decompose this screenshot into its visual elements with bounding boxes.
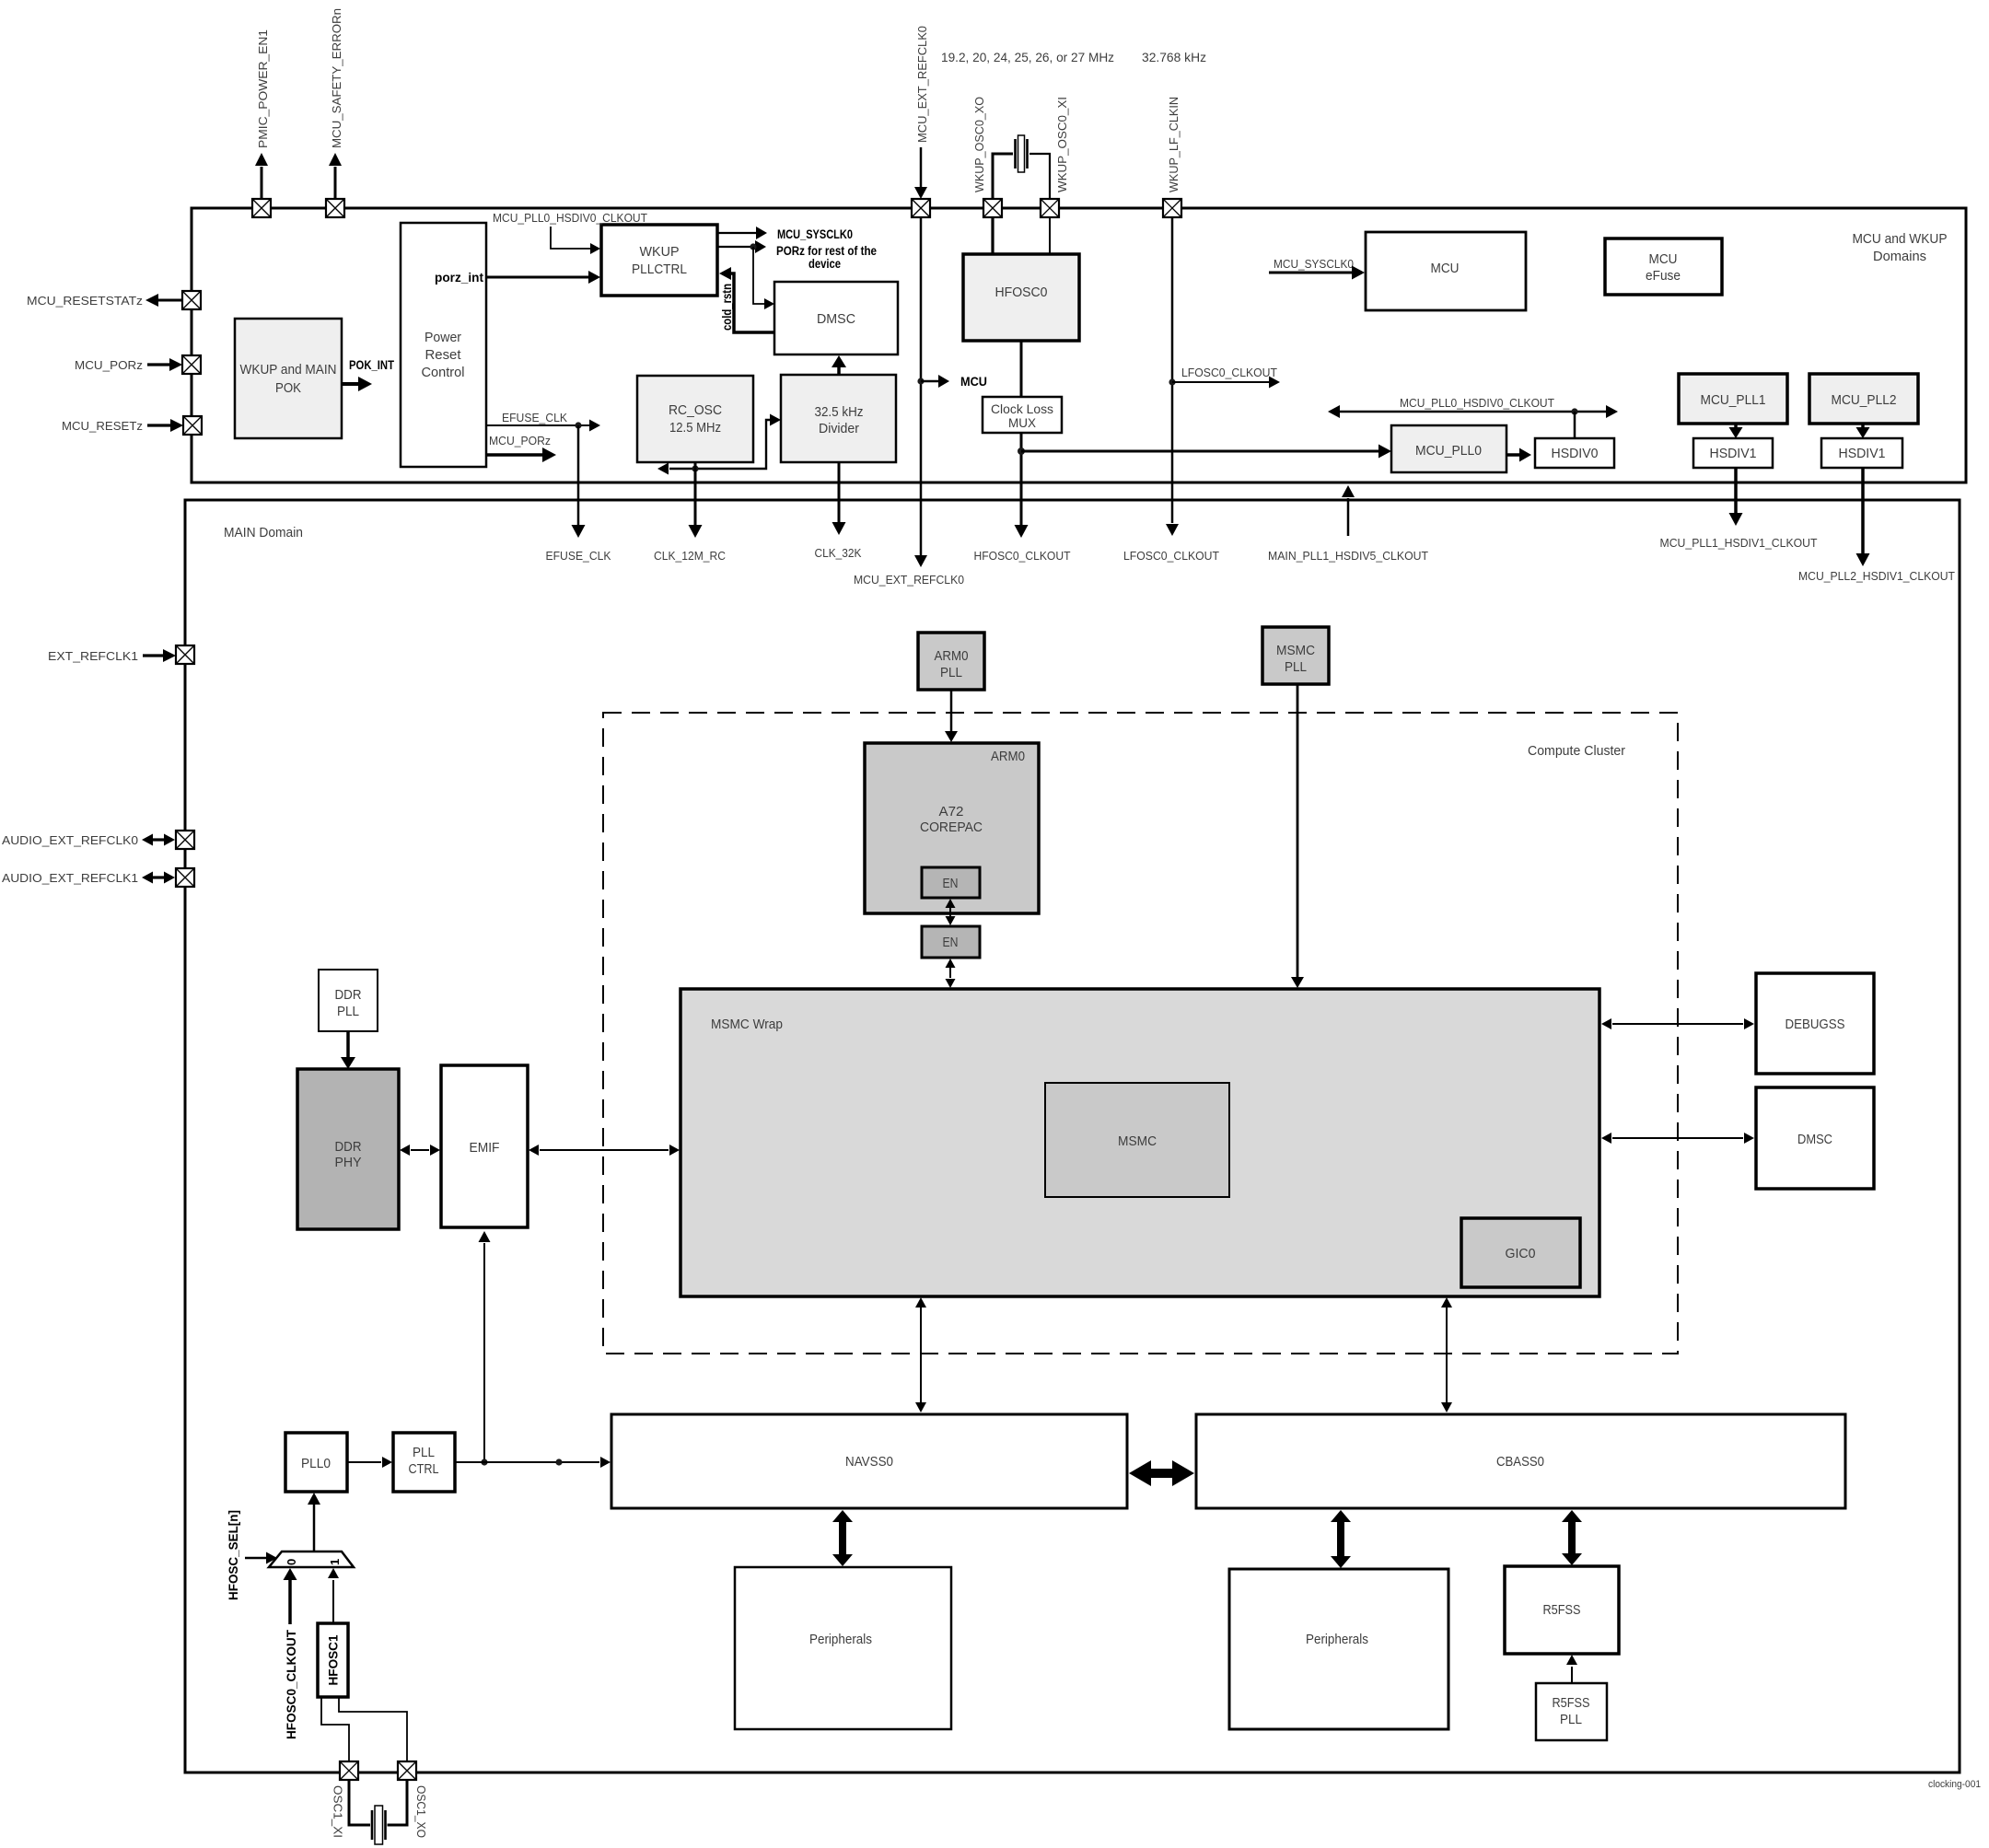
block R5FSS PLL bbox=[1536, 1683, 1607, 1740]
svg-text:0: 0 bbox=[285, 1559, 298, 1565]
block MCU_PLL0 bbox=[1391, 425, 1506, 472]
svg-text:32.5 kHz: 32.5 kHz bbox=[815, 404, 864, 420]
signal POK_INT arrow bbox=[342, 358, 395, 391]
svg-text:Compute Cluster: Compute Cluster bbox=[1528, 743, 1625, 759]
block MSMC bbox=[1045, 1083, 1229, 1197]
svg-text:Peripherals: Peripherals bbox=[1306, 1632, 1368, 1647]
wire HFOSC0_CLKOUT into mux input 0 bbox=[284, 1568, 299, 1739]
svg-text:LFOSC0_CLKOUT: LFOSC0_CLKOUT bbox=[1123, 549, 1219, 563]
svg-text:OSC1_XO: OSC1_XO bbox=[414, 1785, 428, 1838]
svg-text:MSMC Wrap: MSMC Wrap bbox=[711, 1017, 783, 1032]
svg-text:MCU_SYSCLK0: MCU_SYSCLK0 bbox=[1274, 257, 1354, 271]
svg-text:ARM0: ARM0 bbox=[991, 749, 1025, 764]
svg-text:PLLCTRL: PLLCTRL bbox=[632, 262, 687, 277]
svg-text:MSMC: MSMC bbox=[1276, 643, 1315, 658]
svg-text:Domains: Domains bbox=[1873, 249, 1926, 264]
svg-text:HSDIV0: HSDIV0 bbox=[1552, 446, 1599, 461]
signal MCU_SYSCLK0 into MCU bbox=[1269, 257, 1365, 280]
svg-text:CBASS0: CBASS0 bbox=[1496, 1454, 1544, 1470]
wire R5FSS PLL to R5FSS bbox=[1566, 1655, 1577, 1683]
svg-text:DMSC: DMSC bbox=[817, 311, 855, 327]
svg-text:MSMC: MSMC bbox=[1118, 1133, 1157, 1149]
svg-text:MCU_PLL2_HSDIV1_CLKOUT: MCU_PLL2_HSDIV1_CLKOUT bbox=[1798, 569, 1955, 583]
pin MCU_SAFETY_ERRORn bbox=[326, 8, 344, 217]
wire MCU_EXT_REFCLK0 vertical bbox=[854, 217, 987, 587]
svg-text:MCU_PLL1_HSDIV1_CLKOUT: MCU_PLL1_HSDIV1_CLKOUT bbox=[1660, 536, 1818, 550]
svg-text:EFUSE_CLK: EFUSE_CLK bbox=[546, 549, 611, 563]
wire RC_OSC divider feedback loop bbox=[657, 414, 781, 475]
wire MCU_PLL2 to HSDIV1 bbox=[1856, 424, 1870, 438]
signal PORz for rest of the device output bbox=[717, 240, 877, 271]
signal EFUSE_CLK from Power Reset Control bbox=[486, 411, 600, 432]
block ARM0 A72 COREPAC bbox=[865, 743, 1039, 913]
wire MSMC Wrap to NAVSS0 double arrow bbox=[915, 1297, 926, 1412]
block HSDIV1 right bbox=[1821, 438, 1902, 468]
svg-text:RC_OSC: RC_OSC bbox=[669, 402, 722, 418]
svg-text:MCU_PLL0_HSDIV0_CLKOUT: MCU_PLL0_HSDIV0_CLKOUT bbox=[493, 211, 647, 225]
block Clock Loss MUX bbox=[983, 397, 1062, 433]
wire MCU_PLL2_HSDIV1_CLKOUT down bbox=[1798, 468, 1955, 583]
svg-text:HSDIV1: HSDIV1 bbox=[1839, 446, 1886, 461]
svg-text:MCU_PLL1: MCU_PLL1 bbox=[1701, 392, 1766, 408]
wire WKUP_OSC0_XI to HFOSC0 bbox=[1049, 217, 1051, 254]
wire CBASS0 to Peripherals fat double arrow bbox=[1331, 1510, 1351, 1568]
block ARM0 PLL bbox=[918, 633, 984, 690]
wire NAVSS0 to Peripherals fat double arrow bbox=[832, 1510, 853, 1566]
svg-text:MCU: MCU bbox=[960, 375, 987, 389]
svg-text:ARM0: ARM0 bbox=[935, 648, 969, 664]
wire PLL CTRL to NAVSS0 bbox=[455, 1457, 611, 1468]
wire MSMC Wrap to DMSC double arrow bbox=[1601, 1133, 1754, 1144]
svg-text:OSC1_XI: OSC1_XI bbox=[331, 1785, 345, 1838]
Compute Cluster dashed boundary bbox=[603, 713, 1678, 1354]
svg-text:PLL: PLL bbox=[337, 1004, 359, 1019]
block DMSC bbox=[774, 282, 898, 354]
wire divider to DMSC arrow bbox=[832, 355, 846, 375]
svg-text:clocking-001: clocking-001 bbox=[1928, 1779, 1981, 1790]
svg-text:PORz for rest of the: PORz for rest of the bbox=[776, 244, 877, 258]
block PLL CTRL bbox=[393, 1433, 455, 1492]
block HFOSC0 bbox=[963, 254, 1079, 341]
svg-text:eFuse: eFuse bbox=[1646, 268, 1681, 284]
wire mux output to PLL0 bbox=[308, 1493, 320, 1552]
crystal at OSC1 bbox=[349, 1780, 407, 1844]
block EMIF bbox=[441, 1065, 528, 1227]
svg-text:MCU_SYSCLK0: MCU_SYSCLK0 bbox=[777, 227, 853, 241]
wire EFUSE_CLK down to MAIN bbox=[546, 425, 611, 563]
pin MCU_EXT_REFCLK0 with input arrow bbox=[912, 26, 930, 217]
svg-text:MUX: MUX bbox=[1008, 415, 1037, 430]
block DDR PLL bbox=[319, 970, 378, 1031]
wire MCU_PLL0 to HSDIV0 bbox=[1506, 448, 1531, 462]
svg-text:EN: EN bbox=[943, 935, 959, 950]
pin WKUP_OSC0_XO bbox=[972, 97, 1002, 217]
svg-text:Clock Loss: Clock Loss bbox=[991, 401, 1053, 416]
svg-text:LFOSC0_CLKOUT: LFOSC0_CLKOUT bbox=[1181, 366, 1277, 379]
block EN outside ARM0 bbox=[922, 926, 980, 958]
block MCU_PLL1 bbox=[1679, 374, 1787, 424]
svg-text:porz_int: porz_int bbox=[435, 271, 484, 285]
wire HFOSC0 to Clock Loss MUX bbox=[1020, 341, 1023, 397]
wire cold_rstn from DMSC to WKUP PLLCTRL bbox=[719, 267, 774, 332]
block CBASS0 bbox=[1196, 1414, 1845, 1508]
wire MCU_PLL1 to HSDIV1 bbox=[1729, 424, 1743, 438]
block EN inside ARM0 bbox=[922, 867, 980, 898]
MAIN Domain boundary box bbox=[185, 500, 1960, 1772]
wire DDR PHY to EMIF double arrow bbox=[400, 1145, 440, 1156]
svg-text:MCU_PLL0: MCU_PLL0 bbox=[1415, 443, 1482, 459]
svg-text:PLL0: PLL0 bbox=[301, 1456, 331, 1471]
svg-text:POK: POK bbox=[275, 380, 301, 396]
block PLL0 bbox=[285, 1433, 347, 1492]
wire MCU_PLL0_HSDIV0_CLKOUT into WKUP PLLCTRL bbox=[551, 227, 600, 254]
wire CLK_12M_RC output bbox=[654, 462, 726, 563]
svg-text:MCU: MCU bbox=[1649, 251, 1678, 267]
block WKUP and MAIN POK bbox=[235, 319, 342, 438]
svg-text:Control: Control bbox=[422, 365, 465, 380]
figure id label clocking-001 bbox=[1928, 1779, 1981, 1790]
svg-text:DDR: DDR bbox=[335, 987, 362, 1003]
wire EN to MSMC Wrap double arrow bbox=[946, 959, 956, 988]
wire PLL0 to PLL CTRL bbox=[347, 1457, 392, 1468]
svg-text:NAVSS0: NAVSS0 bbox=[845, 1454, 893, 1470]
crystal at WKUP_OSC0 bbox=[993, 135, 1050, 199]
block DMSC right bbox=[1756, 1087, 1874, 1189]
label 19.2 20 24 25 26 or 27 MHz bbox=[941, 50, 1114, 64]
svg-text:A72: A72 bbox=[939, 804, 964, 819]
wire PLL clock up into EMIF bbox=[479, 1231, 491, 1466]
svg-text:WKUP and MAIN: WKUP and MAIN bbox=[240, 362, 337, 378]
MCU and WKUP Domains boundary box bbox=[192, 208, 1966, 482]
svg-text:PLL: PLL bbox=[413, 1445, 435, 1460]
svg-text:WKUP_OSC0_XO: WKUP_OSC0_XO bbox=[972, 97, 986, 192]
wire CLK_32K output bbox=[815, 462, 862, 560]
svg-text:WKUP_OSC0_XI: WKUP_OSC0_XI bbox=[1055, 97, 1069, 192]
svg-text:32.768 kHz: 32.768 kHz bbox=[1142, 50, 1206, 64]
wire HFOSC0_CLKOUT down bbox=[974, 433, 1071, 563]
svg-text:MCU_PLL2: MCU_PLL2 bbox=[1832, 392, 1897, 408]
wire CBASS0 to R5FSS fat double arrow bbox=[1562, 1510, 1582, 1565]
svg-text:WKUP: WKUP bbox=[640, 244, 680, 260]
svg-text:MCU_RESETz: MCU_RESETz bbox=[62, 419, 143, 433]
svg-text:EN: EN bbox=[943, 876, 959, 891]
svg-text:MCU_EXT_REFCLK0: MCU_EXT_REFCLK0 bbox=[854, 573, 964, 587]
block Peripherals right bbox=[1229, 1569, 1448, 1729]
svg-text:MCU_SAFETY_ERRORn: MCU_SAFETY_ERRORn bbox=[330, 8, 343, 148]
svg-text:cold_rstn: cold_rstn bbox=[720, 284, 734, 331]
block MSMC PLL bbox=[1262, 627, 1329, 684]
svg-text:Divider: Divider bbox=[819, 421, 859, 436]
svg-text:AUDIO_EXT_REFCLK1: AUDIO_EXT_REFCLK1 bbox=[2, 871, 138, 885]
wire HFOSC0 clock to MCU_PLL0 bbox=[1021, 445, 1391, 459]
svg-text:R5FSS: R5FSS bbox=[1543, 1602, 1581, 1618]
block Peripherals left bbox=[735, 1567, 951, 1729]
wire HFOSC1 to OSC1_XO bbox=[339, 1697, 407, 1761]
svg-text:MCU_RESETSTATz: MCU_RESETSTATz bbox=[27, 294, 143, 308]
wire ARM0 PLL to ARM0 bbox=[945, 690, 958, 742]
svg-text:MAIN_PLL1_HSDIV5_CLKOUT: MAIN_PLL1_HSDIV5_CLKOUT bbox=[1268, 549, 1428, 563]
svg-text:WKUP_LF_CLKIN: WKUP_LF_CLKIN bbox=[1167, 97, 1181, 192]
svg-text:19.2, 20, 24, 25, 26, or 27 MH: 19.2, 20, 24, 25, 26, or 27 MHz bbox=[941, 50, 1114, 64]
pin MCU_RESETz with input arrow bbox=[62, 416, 202, 435]
wire EN to EN double arrow bbox=[946, 899, 956, 925]
svg-text:DMSC: DMSC bbox=[1797, 1132, 1832, 1147]
svg-text:R5FSS: R5FSS bbox=[1553, 1695, 1590, 1711]
label MCU_PLL0_HSDIV0_CLKOUT at PLLCTRL input bbox=[493, 211, 647, 225]
pin WKUP_OSC0_XI bbox=[1041, 97, 1069, 217]
pin AUDIO_EXT_REFCLK0 bidirectional bbox=[2, 831, 194, 849]
wire MSMC Wrap to CBASS0 double arrow bbox=[1441, 1297, 1452, 1412]
block HSDIV0 bbox=[1535, 438, 1614, 468]
wire MSMC PLL to MSMC Wrap bbox=[1291, 684, 1304, 988]
svg-text:CTRL: CTRL bbox=[409, 1461, 439, 1477]
svg-text:MCU_PORz: MCU_PORz bbox=[489, 434, 551, 447]
wire MSMC Wrap to DEBUGSS double arrow bbox=[1601, 1018, 1754, 1029]
pin OSC1_XO bbox=[398, 1761, 428, 1838]
svg-text:PLL: PLL bbox=[940, 665, 962, 680]
block MCU eFuse bbox=[1605, 238, 1722, 295]
signal MCU_PORz output from Power Reset Control bbox=[486, 434, 556, 462]
wire WKUP_OSC0_XO to HFOSC0 bbox=[991, 217, 994, 254]
block 32.5 kHz Divider bbox=[781, 375, 896, 462]
label 32.768 kHz bbox=[1142, 50, 1206, 64]
wire PORz branch to DMSC bbox=[753, 247, 774, 309]
block WKUP PLLCTRL bbox=[601, 225, 717, 296]
pin MCU_RESETSTATz with output arrow bbox=[27, 291, 201, 309]
wire DDR PLL to DDR PHY bbox=[341, 1031, 355, 1069]
svg-text:HFOSC0: HFOSC0 bbox=[995, 285, 1048, 300]
block DEBUGSS bbox=[1756, 973, 1874, 1074]
svg-text:EXT_REFCLK1: EXT_REFCLK1 bbox=[48, 649, 138, 663]
mux HFOSC_SEL bbox=[269, 1552, 354, 1567]
block HFOSC1 bbox=[318, 1623, 348, 1697]
block R5FSS bbox=[1505, 1566, 1619, 1654]
wire EMIF to MSMC Wrap double arrow bbox=[529, 1145, 680, 1156]
pin PMIC_POWER_EN1 bbox=[252, 29, 271, 217]
pin MCU_PORz with input arrow bbox=[75, 355, 201, 374]
svg-text:MCU_PLL0_HSDIV0_CLKOUT: MCU_PLL0_HSDIV0_CLKOUT bbox=[1400, 396, 1554, 410]
block Power Reset Control bbox=[401, 223, 486, 467]
wire MCU_PLL0_HSDIV0_CLKOUT double arrow bbox=[1328, 396, 1618, 438]
svg-text:PLL: PLL bbox=[1560, 1712, 1582, 1727]
wire NAVSS0 CBASS0 fat double arrow bbox=[1129, 1460, 1194, 1486]
block GIC0 bbox=[1461, 1218, 1580, 1287]
svg-text:device: device bbox=[808, 257, 841, 271]
pin OSC1_XI bbox=[331, 1761, 359, 1838]
svg-text:GIC0: GIC0 bbox=[1506, 1246, 1536, 1261]
svg-text:PMIC_POWER_EN1: PMIC_POWER_EN1 bbox=[256, 29, 270, 148]
signal HFOSC_SEL[n] select bbox=[227, 1510, 277, 1600]
block DDR PHY bbox=[297, 1069, 399, 1229]
pin EXT_REFCLK1 with input arrow bbox=[48, 645, 194, 664]
pin WKUP_LF_CLKIN bbox=[1163, 97, 1181, 217]
wire MAIN_PLL1_HSDIV5_CLKOUT up into MCU domain bbox=[1268, 485, 1428, 563]
signal MCU_SYSCLK0 output bbox=[717, 227, 853, 241]
svg-text:Peripherals: Peripherals bbox=[809, 1632, 872, 1647]
label porz_int bbox=[435, 271, 484, 285]
block MSMC Wrap bbox=[680, 989, 1599, 1296]
svg-text:MCU: MCU bbox=[1431, 261, 1460, 276]
svg-text:DDR: DDR bbox=[335, 1139, 362, 1155]
svg-text:HFOSC0_CLKOUT: HFOSC0_CLKOUT bbox=[285, 1629, 298, 1739]
svg-text:MAIN Domain: MAIN Domain bbox=[224, 525, 303, 540]
svg-text:MCU and WKUP: MCU and WKUP bbox=[1853, 231, 1948, 247]
svg-text:HSDIV1: HSDIV1 bbox=[1710, 446, 1757, 461]
svg-text:HFOSC1: HFOSC1 bbox=[327, 1634, 341, 1685]
block NAVSS0 bbox=[611, 1414, 1127, 1508]
svg-text:DEBUGSS: DEBUGSS bbox=[1785, 1017, 1845, 1032]
svg-text:COREPAC: COREPAC bbox=[920, 819, 983, 835]
svg-text:MCU_EXT_REFCLK0: MCU_EXT_REFCLK0 bbox=[915, 26, 929, 143]
svg-text:EMIF: EMIF bbox=[470, 1140, 500, 1156]
svg-text:Power: Power bbox=[425, 330, 461, 345]
svg-text:1: 1 bbox=[328, 1559, 342, 1565]
wire MCU_PLL1_HSDIV1_CLKOUT down bbox=[1660, 468, 1818, 550]
wire porz_int to WKUP PLLCTRL bbox=[486, 271, 600, 284]
block MCU bbox=[1366, 232, 1526, 310]
svg-text:POK_INT: POK_INT bbox=[349, 358, 395, 372]
svg-text:CLK_12M_RC: CLK_12M_RC bbox=[654, 549, 726, 563]
svg-text:HFOSC_SEL[n]: HFOSC_SEL[n] bbox=[227, 1510, 240, 1600]
svg-text:AUDIO_EXT_REFCLK0: AUDIO_EXT_REFCLK0 bbox=[2, 833, 138, 847]
svg-text:EFUSE_CLK: EFUSE_CLK bbox=[502, 411, 567, 424]
block HSDIV1 left bbox=[1693, 438, 1773, 468]
svg-text:HFOSC0_CLKOUT: HFOSC0_CLKOUT bbox=[974, 549, 1071, 563]
wire HFOSC1 to OSC1_XI bbox=[321, 1697, 349, 1761]
wire WKUP_LF_CLKIN LFOSC0 vertical bbox=[1123, 217, 1280, 563]
svg-text:MCU_PORz: MCU_PORz bbox=[75, 358, 143, 372]
svg-text:12.5 MHz: 12.5 MHz bbox=[669, 420, 721, 436]
svg-text:Reset: Reset bbox=[425, 347, 462, 363]
block MCU_PLL2 bbox=[1809, 374, 1918, 424]
pin AUDIO_EXT_REFCLK1 bidirectional bbox=[2, 868, 194, 887]
block RC_OSC 12.5 MHz bbox=[637, 376, 753, 462]
svg-text:CLK_32K: CLK_32K bbox=[815, 546, 862, 560]
svg-text:PLL: PLL bbox=[1285, 659, 1307, 675]
svg-text:PHY: PHY bbox=[335, 1155, 362, 1170]
wire HFOSC1 into mux input 1 bbox=[328, 1568, 339, 1623]
